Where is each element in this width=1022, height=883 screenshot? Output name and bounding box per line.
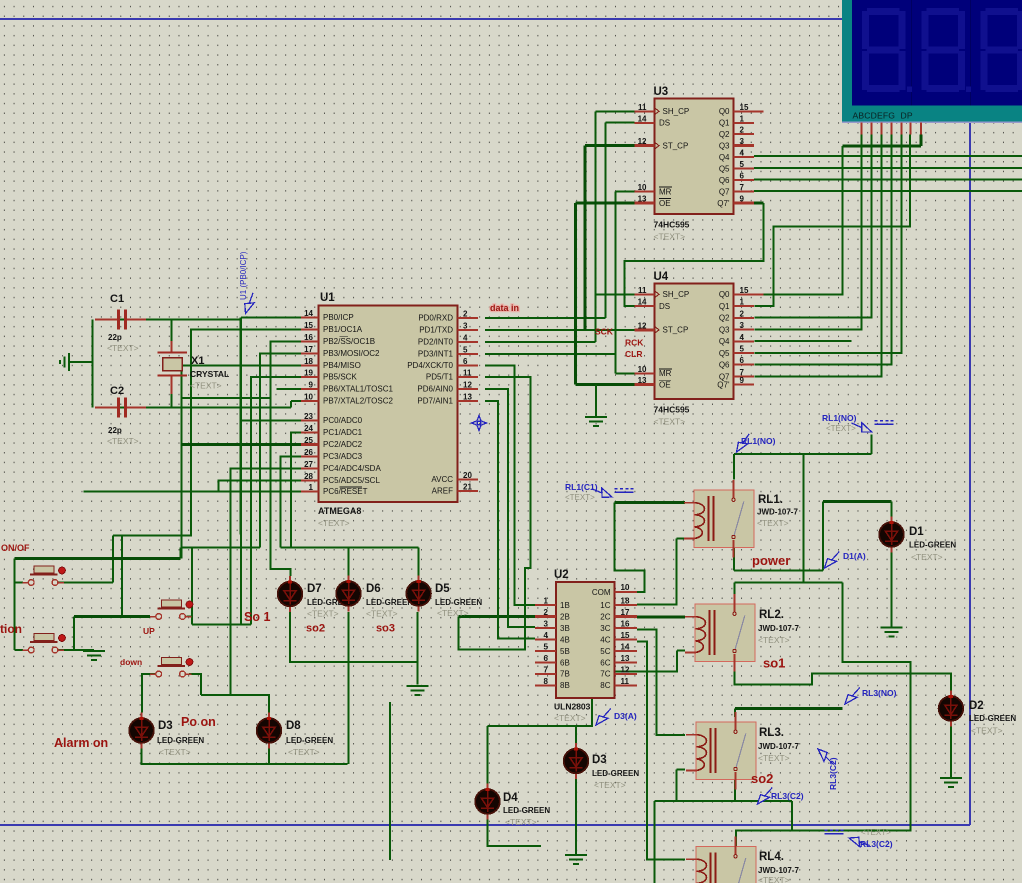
svg-text:D6: D6	[366, 583, 381, 595]
U4 right pins	[734, 293, 764, 295]
wire U4 Q7 to seg C	[754, 135, 881, 377]
wire power drop	[802, 454, 804, 583]
wire RL3 contact bottom	[735, 780, 792, 802]
terminal RL3(C2) bottom	[825, 830, 844, 834]
svg-text:ON/OF: ON/OF	[1, 543, 30, 553]
svg-text:13: 13	[638, 376, 647, 385]
svg-text:JWD-107-7: JWD-107-7	[758, 624, 799, 633]
wire PC1 bus down	[291, 433, 301, 548]
svg-text:RL1.: RL1.	[758, 494, 783, 506]
wire so2 drop2	[791, 801, 793, 831]
LED D3 left	[129, 713, 154, 749]
arrow RL1(NO) b	[733, 432, 753, 455]
crystal X1	[158, 341, 188, 394]
svg-text:18: 18	[304, 357, 313, 366]
ground below U4	[585, 417, 607, 426]
svg-text:3C: 3C	[600, 624, 610, 633]
LED D3 middle	[564, 743, 589, 779]
origin marker	[472, 416, 487, 431]
wire RL3 coil- lead	[676, 769, 685, 771]
wire D1 anode rail	[734, 569, 823, 571]
svg-text:So 1: So 1	[244, 610, 270, 624]
U3 right pins	[734, 110, 764, 112]
svg-text:PB6/XTAL1/TOSC1: PB6/XTAL1/TOSC1	[323, 385, 394, 394]
svg-text:RL1(NO): RL1(NO)	[822, 413, 857, 423]
wire D3 top stem	[575, 726, 577, 744]
wire U3 MR lead	[615, 191, 634, 193]
svg-text:27: 27	[304, 460, 313, 469]
svg-text:RL2.: RL2.	[759, 609, 784, 621]
wire PD0 data row	[485, 317, 606, 319]
relay RL3 JWD-107-7	[686, 712, 756, 790]
svg-text:8C: 8C	[600, 681, 610, 690]
svg-text:PC3/ADC3: PC3/ADC3	[323, 452, 363, 461]
wire PD4 to U2 pin1	[485, 365, 535, 605]
svg-text:22p: 22p	[108, 426, 122, 435]
svg-text:ULN2803: ULN2803	[554, 702, 591, 712]
svg-text:<TEXT>: <TEXT>	[758, 753, 790, 763]
svg-text:D7: D7	[307, 583, 322, 595]
svg-text:2B: 2B	[560, 612, 570, 621]
wire rail btn1	[122, 534, 192, 536]
display digit 1	[862, 8, 912, 92]
relay RL2 JWD-107-7	[685, 594, 755, 672]
svg-text:3B: 3B	[560, 624, 570, 633]
wire PC5 jog	[219, 481, 301, 492]
wire power top rail	[734, 453, 872, 455]
wire rail LED tops a	[181, 547, 260, 549]
svg-text:D1(A): D1(A)	[843, 551, 866, 561]
svg-text:LED-GREEN: LED-GREEN	[909, 541, 956, 550]
wire DP stub down bold	[919, 135, 922, 146]
wire SH_CP bus	[594, 111, 596, 342]
7-segment display module	[842, 0, 1022, 122]
wire XTAL2 riser	[290, 401, 292, 407]
svg-text:D4: D4	[503, 792, 518, 804]
wire RL3 NO stem	[734, 709, 736, 718]
arrow RL3(C2) vertical	[815, 746, 837, 768]
wire U3 OE lead bold	[576, 202, 635, 205]
wire D7 bottom rail	[290, 612, 418, 662]
svg-text:6B: 6B	[560, 658, 570, 667]
svg-text:so2: so2	[751, 771, 773, 786]
svg-text:<TEXT>: <TEXT>	[190, 381, 222, 391]
svg-text:5: 5	[463, 345, 468, 354]
overline SS on PB2	[340, 336, 349, 338]
wire RL1 coil+ bold	[637, 501, 685, 504]
wire XTAL1 riser	[269, 389, 271, 398]
svg-text:3: 3	[463, 321, 468, 330]
wire U4 Q4 stub	[754, 340, 851, 342]
wire C2 row	[95, 407, 291, 409]
svg-text:18: 18	[621, 597, 630, 606]
svg-text:PD6/AIN0: PD6/AIN0	[417, 385, 453, 394]
wire D1 cathode down	[891, 553, 893, 627]
wire D2 cathode down	[950, 725, 952, 778]
svg-text:Q7': Q7'	[717, 381, 730, 390]
svg-text:RL1(C1): RL1(C1)	[565, 482, 598, 492]
svg-text:3: 3	[544, 620, 549, 629]
svg-text:Q5: Q5	[719, 349, 730, 358]
ground below D5	[407, 686, 429, 695]
svg-text:PB2/SS/OC1B: PB2/SS/OC1B	[323, 337, 375, 346]
svg-text:4: 4	[740, 333, 745, 342]
svg-text:PB4/MISO: PB4/MISO	[323, 361, 361, 370]
svg-text:8: 8	[544, 677, 549, 686]
svg-text:5: 5	[544, 643, 549, 652]
svg-text:PC6/RESET: PC6/RESET	[323, 487, 368, 496]
svg-text:6: 6	[544, 654, 549, 663]
wire UP right lead	[186, 615, 192, 617]
wire D1 top bold	[823, 500, 892, 503]
svg-text:PB3/MOSI/OC2: PB3/MOSI/OC2	[323, 349, 380, 358]
svg-text:4: 4	[544, 631, 549, 640]
wire btn3 right to ground	[58, 649, 94, 651]
wire rail B bold	[15, 557, 181, 560]
arrow D3(A)	[593, 706, 614, 728]
display digit 3	[981, 8, 1022, 92]
svg-text:<TEXT>: <TEXT>	[758, 875, 790, 883]
svg-text:ST_CP: ST_CP	[663, 326, 689, 335]
arrow D1(A)	[822, 549, 843, 571]
svg-text:X1: X1	[191, 355, 204, 367]
wire Q6 row	[754, 179, 1022, 181]
svg-text:Q3: Q3	[719, 325, 730, 334]
svg-text:2: 2	[740, 309, 745, 318]
svg-text:so1: so1	[763, 656, 785, 671]
wire to D8 top	[201, 695, 269, 713]
wire ST_CP bus bold	[584, 146, 587, 330]
svg-text:Po on: Po on	[181, 715, 216, 729]
svg-text:PD4/XCK/T0: PD4/XCK/T0	[407, 361, 453, 370]
IC U2 ULN2803	[556, 582, 615, 698]
wire U4 Q0 to DP	[754, 146, 842, 294]
svg-text:PD7/AIN1: PD7/AIN1	[417, 397, 453, 406]
wire UP right bus	[191, 548, 193, 625]
wire vertical left-bottom	[389, 702, 391, 860]
svg-text:1: 1	[544, 597, 549, 606]
wire PB0 bus down	[240, 317, 242, 624]
svg-text:Q0: Q0	[719, 290, 730, 299]
wire PC0 row	[241, 420, 301, 422]
svg-text:down: down	[120, 657, 142, 667]
wire RL3 NO rail bold	[735, 707, 843, 710]
wire PC3 bus down	[280, 457, 301, 548]
svg-text:<TEXT>: <TEXT>	[971, 726, 1003, 736]
svg-text:U4: U4	[654, 271, 669, 283]
svg-text:LED-GREEN: LED-GREEN	[157, 736, 204, 745]
svg-text:PB1/OC1A: PB1/OC1A	[323, 325, 363, 334]
svg-text:PB7/XTAL2/TOSC2: PB7/XTAL2/TOSC2	[323, 397, 394, 406]
wire Q5 row	[754, 167, 1022, 169]
relay RL1 JWD-107-7	[684, 480, 754, 558]
svg-text:AVCC: AVCC	[431, 475, 453, 484]
svg-text:PC2/ADC2: PC2/ADC2	[323, 440, 363, 449]
wire rail btn1	[113, 534, 191, 536]
wire RL2 NO stem	[733, 583, 735, 604]
svg-text:PC4/ADC4/SDA: PC4/ADC4/SDA	[323, 464, 381, 473]
svg-text:RL3(C2): RL3(C2)	[828, 757, 838, 790]
wire PD7 to U2 pin4	[485, 401, 535, 638]
svg-text:PD1/TXD: PD1/TXD	[419, 325, 453, 334]
wire U2 pin2 bold	[459, 615, 535, 618]
wire U4 Q2 to seg B	[754, 135, 871, 318]
wire D1 top stem	[891, 502, 893, 517]
wire U4 OE lead bold	[576, 383, 635, 386]
svg-text:3: 3	[740, 321, 745, 330]
wire RL3 coil- drop	[675, 770, 677, 802]
svg-text:U1 (PB0/ICP): U1 (PB0/ICP)	[239, 251, 248, 300]
wire Q4 row	[754, 155, 1022, 157]
wire OE bus bold	[574, 203, 577, 385]
svg-text:ATMEGA8: ATMEGA8	[318, 506, 361, 516]
svg-text:14: 14	[638, 298, 647, 307]
wire PD3 CLR row	[485, 353, 615, 355]
svg-text:PC1/ADC1: PC1/ADC1	[323, 428, 363, 437]
svg-text:12: 12	[638, 137, 647, 146]
svg-text:tion: tion	[0, 622, 22, 636]
svg-text:9: 9	[740, 376, 745, 385]
wire U3 DS lead	[606, 122, 635, 124]
ground left of caps	[60, 353, 69, 371]
svg-text:23: 23	[304, 412, 313, 421]
svg-text:13: 13	[621, 654, 630, 663]
svg-text:10: 10	[621, 583, 630, 592]
wire rail LED tops b	[280, 547, 418, 549]
LED D7	[278, 576, 303, 612]
wire btn1 right bus	[112, 535, 114, 582]
wire PC2 row bold	[182, 443, 301, 446]
svg-text:9: 9	[740, 195, 745, 204]
svg-text:<TEXT>: <TEXT>	[861, 828, 891, 837]
wire PB5 bus down	[251, 377, 301, 624]
svg-text:2C: 2C	[600, 612, 610, 621]
svg-text:14: 14	[621, 643, 630, 652]
svg-text:16: 16	[304, 333, 313, 342]
wire PB1 bus down	[191, 329, 301, 535]
svg-text:<TEXT>: <TEXT>	[758, 635, 790, 645]
svg-text:<TEXT>: <TEXT>	[554, 713, 586, 723]
wire RL1 coil+ bold2	[615, 501, 637, 504]
svg-text:C1: C1	[110, 293, 124, 305]
svg-text:CLR: CLR	[625, 349, 642, 359]
svg-text:Q2: Q2	[719, 314, 730, 323]
svg-text:<TEXT>: <TEXT>	[757, 518, 789, 528]
display digit 2	[921, 8, 971, 92]
LED D4	[475, 784, 500, 820]
svg-text:2: 2	[544, 608, 549, 617]
svg-text:4: 4	[463, 333, 468, 342]
svg-text:D3: D3	[592, 754, 607, 766]
wire U3 ST_CP lead bold	[585, 144, 634, 147]
svg-text:MR: MR	[659, 187, 672, 196]
svg-text:4B: 4B	[560, 635, 570, 644]
svg-text:19: 19	[304, 369, 313, 378]
svg-text:12: 12	[621, 665, 630, 674]
overline RESET on PC6	[340, 486, 363, 488]
svg-text:<TEXT>: <TEXT>	[654, 417, 686, 427]
wire crystal bottom lead	[171, 393, 173, 408]
svg-text:5: 5	[740, 345, 745, 354]
IC U3 74HC595	[655, 99, 734, 215]
svg-text:Q6: Q6	[719, 361, 730, 370]
svg-text:D8: D8	[286, 720, 301, 732]
svg-text:<TEXT>: <TEXT>	[288, 747, 320, 757]
svg-text:PB5/SCK: PB5/SCK	[323, 373, 357, 382]
svg-text:10: 10	[638, 183, 647, 192]
LED D2	[939, 691, 964, 727]
svg-text:<TEXT>: <TEXT>	[826, 424, 856, 433]
svg-text:6: 6	[740, 172, 745, 181]
svg-text:22p: 22p	[108, 333, 122, 342]
U1 left pins	[301, 316, 319, 318]
svg-text:10: 10	[304, 393, 313, 402]
wire C1 row to PB0 net	[95, 319, 241, 321]
terminal RL1(NO)	[875, 421, 894, 425]
svg-text:Q2: Q2	[719, 130, 730, 139]
wire so2 drop	[654, 801, 656, 883]
svg-text:12: 12	[463, 381, 472, 390]
arrow U1(PB0/ICP)	[242, 291, 258, 315]
svg-text:PD3/INT1: PD3/INT1	[418, 349, 454, 358]
U1 right pins	[458, 317, 479, 319]
svg-text:4: 4	[740, 149, 745, 158]
wire PD6 to U2 pin3	[485, 389, 535, 627]
svg-text:JWD-107-7: JWD-107-7	[758, 742, 799, 751]
svg-text:U1: U1	[320, 292, 335, 304]
svg-text:UP: UP	[143, 626, 155, 636]
button function	[23, 634, 66, 653]
svg-text:2: 2	[740, 126, 745, 135]
svg-text:1: 1	[740, 114, 745, 123]
svg-text:MR: MR	[659, 369, 672, 378]
svg-text:PB0/ICP: PB0/ICP	[323, 313, 354, 322]
capacitor C1	[95, 310, 146, 330]
wire down-btn left to D3	[142, 674, 155, 713]
wire crystal top lead	[171, 320, 173, 342]
svg-text:<TEXT>: <TEXT>	[318, 518, 350, 528]
svg-text:RCK: RCK	[625, 338, 644, 348]
svg-text:RL3(C2): RL3(C2)	[771, 791, 804, 801]
svg-text:7: 7	[544, 665, 549, 674]
svg-text:LED-GREEN: LED-GREEN	[366, 598, 413, 607]
svg-text:LED-GREEN: LED-GREEN	[503, 806, 550, 815]
svg-text:7C: 7C	[600, 670, 610, 679]
svg-text:4C: 4C	[600, 635, 610, 644]
wire RL1 NO up	[733, 454, 735, 480]
wire D4 top lead	[487, 726, 489, 784]
wire power chain to RL4	[736, 583, 911, 847]
terminal RL1(C1)	[615, 489, 634, 493]
wire U4 Q5 to seg E	[754, 135, 901, 353]
svg-text:JWD-107-7: JWD-107-7	[758, 866, 799, 875]
svg-text:D1: D1	[909, 526, 924, 538]
svg-text:15: 15	[304, 321, 313, 330]
svg-text:PD0/RXD: PD0/RXD	[418, 313, 453, 322]
svg-text:Q0: Q0	[719, 107, 730, 116]
wire U4 Q6 to seg D	[754, 135, 891, 365]
svg-text:RL3(NO): RL3(NO)	[862, 688, 897, 698]
svg-text:PC5/ADC5/SCL: PC5/ADC5/SCL	[323, 476, 380, 485]
wire UP left bold	[74, 615, 150, 618]
svg-text:9: 9	[309, 381, 314, 390]
svg-text:PD2/INT0: PD2/INT0	[418, 337, 454, 346]
svg-text:SCK: SCK	[595, 327, 614, 337]
svg-text:74HC595: 74HC595	[654, 220, 690, 230]
svg-text:COM: COM	[592, 588, 611, 597]
svg-text:<TEXT>: <TEXT>	[107, 436, 139, 446]
capacitor C2	[95, 398, 146, 418]
U4 left pins	[635, 293, 655, 295]
svg-text:D2: D2	[969, 700, 984, 712]
wire D1 anode riser	[822, 502, 824, 571]
svg-text:7: 7	[740, 183, 745, 192]
svg-text:15: 15	[740, 103, 749, 112]
wire RL1 coil- to 1C	[637, 538, 676, 604]
wire cap left bus	[92, 320, 94, 408]
wire PB5 link	[192, 624, 251, 626]
svg-text:26: 26	[304, 448, 313, 457]
svg-text:AREF: AREF	[432, 487, 453, 496]
svg-text:12: 12	[638, 321, 647, 330]
wire D4 cathode down	[488, 818, 542, 846]
wire PB3 bus down	[260, 353, 301, 547]
svg-text:6C: 6C	[600, 658, 610, 667]
wire D3 cathode down	[575, 775, 577, 855]
svg-text:<TEXT>: <TEXT>	[505, 817, 537, 827]
svg-text:D5: D5	[435, 583, 450, 595]
svg-text:<TEXT>: <TEXT>	[437, 608, 469, 618]
wire PB0 bus down	[240, 317, 242, 534]
display pin stubs	[861, 123, 921, 135]
sheet border top	[0, 18, 970, 20]
wire PB0 row	[241, 316, 301, 318]
svg-text:17: 17	[621, 608, 630, 617]
wire PB6 row	[277, 388, 302, 390]
wire D5 bottom to ground	[417, 612, 419, 685]
svg-text:Q5: Q5	[719, 164, 730, 173]
svg-text:Q1: Q1	[719, 119, 730, 128]
svg-text:JWD-107-7: JWD-107-7	[757, 508, 798, 517]
svg-text:ST_CP: ST_CP	[663, 141, 689, 150]
svg-text:data in: data in	[490, 303, 519, 313]
relay RL4 JWD-107-7	[686, 837, 756, 883]
wire Q7p to U4 DS	[625, 203, 764, 306]
svg-text:13: 13	[463, 393, 472, 402]
svg-text:LED-GREEN: LED-GREEN	[435, 598, 482, 607]
LED D5	[406, 576, 431, 612]
wire U4 MR lead	[615, 372, 634, 374]
svg-text:so3: so3	[376, 623, 395, 635]
svg-text:17: 17	[304, 345, 313, 354]
wire D8 bottom lead	[268, 749, 270, 765]
svg-text:5C: 5C	[600, 647, 610, 656]
svg-text:<TEXT>: <TEXT>	[911, 552, 943, 562]
wire 2C to RL2 bold	[637, 615, 685, 618]
arrow RL1(NO) a	[850, 419, 874, 436]
svg-text:13: 13	[638, 195, 647, 204]
wire Q7 row	[754, 190, 1022, 192]
svg-text:14: 14	[638, 114, 647, 123]
svg-text:Q6: Q6	[719, 176, 730, 185]
svg-text:5B: 5B	[560, 647, 570, 656]
svg-text:<TEXT>: <TEXT>	[565, 493, 595, 502]
svg-text:14: 14	[304, 309, 313, 318]
wire PD1 RCK row	[485, 329, 635, 331]
wire RL2 coil- to D4	[488, 651, 678, 727]
wire COM to RL1	[615, 502, 645, 592]
wire PB7 row	[291, 400, 301, 402]
